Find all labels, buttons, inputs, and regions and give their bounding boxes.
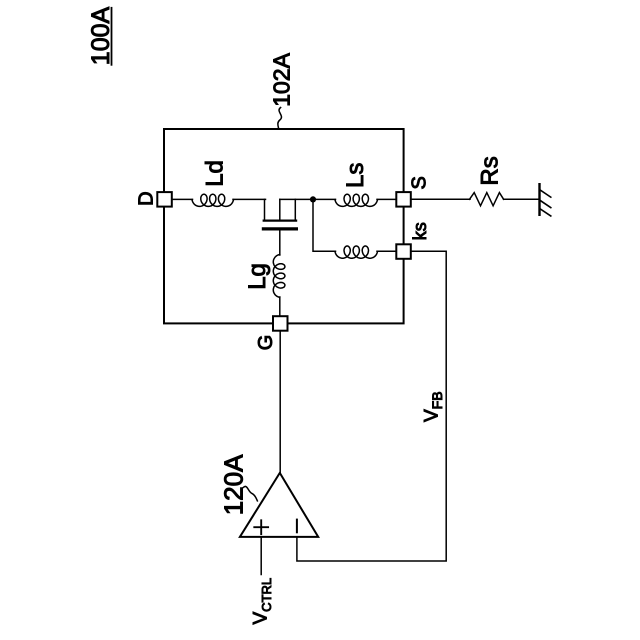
inductor Lg — [273, 255, 285, 298]
terminal ks — [396, 244, 411, 258]
node junction dot — [310, 196, 316, 202]
wire D to Ld — [172, 198, 193, 200]
svg-text:Ls: Ls — [342, 163, 369, 188]
svg-text:120A: 120A — [219, 454, 249, 515]
op-amp plus input mark — [254, 520, 268, 534]
wire Rs to ground — [504, 198, 539, 200]
transistor (FET) — [263, 199, 296, 255]
wire VFB feedback: ks to op-amp minus input — [297, 251, 446, 561]
terminal G — [273, 316, 288, 331]
wire transistor source to node — [280, 198, 336, 200]
wire Lg to G terminal — [279, 297, 281, 317]
resistor Rs — [470, 193, 504, 206]
op-amp minus input mark — [296, 520, 298, 533]
svg-text:D: D — [135, 191, 157, 205]
leader squiggle 102A — [278, 108, 282, 129]
op-amp 120A — [240, 473, 318, 537]
terminal S — [396, 192, 411, 207]
terminal D — [157, 192, 172, 207]
wire G to op-amp output — [279, 331, 281, 473]
inductor sense winding (ks row) — [335, 246, 378, 258]
svg-text:ks: ks — [410, 222, 430, 240]
svg-text:G: G — [255, 335, 277, 351]
ground — [538, 184, 540, 215]
wire op-amp plus input to VCTRL — [260, 537, 262, 575]
wire Ls to S — [377, 198, 397, 200]
inductor Ls — [335, 194, 378, 206]
wire Ld to transistor drain — [233, 198, 266, 200]
svg-text:102A: 102A — [269, 52, 295, 106]
svg-text:Ld: Ld — [201, 160, 228, 187]
inductor Ld — [192, 194, 234, 206]
enclosure box 102A — [164, 129, 404, 323]
svg-text:Rs: Rs — [476, 156, 503, 185]
wire node down to ks row — [313, 199, 336, 251]
wire S to Rs — [411, 198, 470, 200]
svg-text:Lg: Lg — [244, 263, 271, 290]
leader squiggle 120A — [243, 486, 257, 500]
svg-text:S: S — [408, 176, 430, 189]
wire sense winding to ks terminal — [377, 250, 397, 252]
